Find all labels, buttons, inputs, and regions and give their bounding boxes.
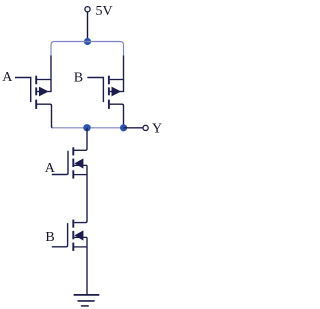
- node output junction dot left: [83, 124, 90, 131]
- svg-text:A: A: [2, 70, 13, 85]
- transistor Q2 PMOS channel: [108, 76, 110, 109]
- svg-text:A: A: [45, 161, 56, 176]
- wire VDD rail: [51, 42, 124, 58]
- transistor Q4 NMOS channel: [72, 220, 74, 251]
- svg-text:Y: Y: [152, 122, 162, 137]
- Y output terminal: [143, 125, 148, 130]
- 5V supply terminal: [85, 7, 90, 12]
- transistor Q2 PMOS source stub: [110, 79, 124, 81]
- wire NMOS B source down to ground: [86, 237, 88, 294]
- transistor Q1 PMOS source stub: [37, 79, 51, 81]
- wire right rail vertical: [123, 56, 125, 93]
- transistor Q4 NMOS source stub: [74, 246, 87, 248]
- node VDD junction dot: [84, 38, 91, 45]
- svg-text:5V: 5V: [96, 4, 113, 19]
- transistor Q3 NMOS source stub: [74, 174, 87, 176]
- transistor Q1 PMOS gate: [15, 78, 31, 103]
- wire NMOS A source down to NMOS B drain: [74, 165, 87, 222]
- transistor Q1 PMOS drain stub down to output: [37, 104, 53, 128]
- transistor Q4 NMOS gate: [52, 223, 68, 247]
- svg-text:B: B: [45, 230, 54, 245]
- wire output to Y terminal: [124, 127, 143, 129]
- transistor Q1 PMOS channel: [35, 76, 37, 109]
- transistor Q4 NMOS body arrow: [74, 230, 87, 240]
- transistor Q3 NMOS channel: [72, 147, 74, 178]
- wire 5V stem: [87, 12, 89, 41]
- transistor Q3 NMOS gate: [52, 151, 68, 175]
- transistor Q2 PMOS gate: [87, 78, 103, 103]
- wire output down to NMOS A drain: [74, 128, 87, 151]
- wire left rail vertical: [50, 56, 52, 93]
- transistor Q2 PMOS body arrow: [110, 87, 124, 97]
- transistor Q2 PMOS drain stub down to output: [110, 104, 124, 128]
- node output junction dot right: [120, 124, 127, 131]
- transistor Q1 PMOS body arrow: [37, 87, 51, 97]
- transistor Q3 NMOS body arrow: [74, 158, 87, 168]
- ground: [74, 295, 100, 306]
- svg-text:B: B: [74, 70, 83, 85]
- wire output rail: [52, 127, 124, 129]
